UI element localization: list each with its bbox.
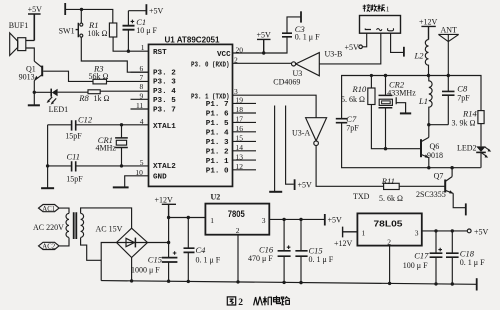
terminal bar (Q7 emitter) (465, 203, 467, 215)
svg-text:9: 9 (140, 91, 144, 100)
svg-text:AC1: AC1 (42, 206, 55, 213)
capacitor C7 (336, 119, 347, 123)
svg-text:5. 6k Ω: 5. 6k Ω (379, 194, 403, 203)
+5V terminal bar (U2 out) (324, 214, 326, 226)
svg-text:7pF: 7pF (346, 123, 359, 132)
terminal circle +5V (78L05) (467, 229, 471, 233)
node L1 bottom (427, 123, 430, 126)
crystal CR2 (379, 76, 393, 149)
svg-text:C18: C18 (460, 248, 475, 258)
+5V rail bar (SW1/R1) (64, 3, 66, 15)
capacitor C3 (282, 33, 292, 37)
wire bottom rail (101, 281, 476, 285)
node rail C18 (451, 282, 454, 285)
pin 5 wire XTAL2 (48, 165, 149, 167)
svg-text:CD4069: CD4069 (273, 77, 300, 86)
wire receiver +5V pin (363, 33, 367, 47)
IC U2 7805 body (205, 204, 269, 235)
capacitor C18 (446, 231, 459, 284)
svg-text:R14: R14 (462, 108, 477, 118)
svg-text:P1. 7: P1. 7 (206, 101, 229, 109)
IC U3 78L05 body (357, 213, 421, 245)
speaker BUF1 (10, 33, 35, 61)
node Q1 emitter / LED junction (33, 91, 36, 94)
svg-text:Q7: Q7 (434, 171, 444, 180)
svg-text:2: 2 (236, 226, 240, 235)
capacitor C12 (72, 120, 76, 130)
svg-text:R11: R11 (381, 176, 395, 186)
pin 19-12 stubs (233, 103, 257, 169)
svg-text:3: 3 (415, 228, 419, 237)
pin 2 wire RXD (233, 62, 292, 64)
node pin4 / CR1 (120, 123, 123, 126)
wire secondary top to bridge (81, 208, 132, 228)
svg-text:P1. 1: P1. 1 (206, 158, 229, 166)
svg-text:2SC3355: 2SC3355 (416, 190, 446, 199)
capacitor C11 (72, 161, 76, 171)
node C16 top (282, 218, 285, 221)
svg-text:XTAL2: XTAL2 (153, 163, 176, 171)
pin 4 wire XTAL1 (48, 124, 149, 126)
ground (middle) (269, 191, 282, 193)
bridge rectifier (117, 228, 148, 257)
svg-text:19: 19 (236, 96, 244, 105)
wire bridge left to down rail (101, 243, 116, 281)
svg-text:2: 2 (238, 298, 243, 308)
wire Q1 base (43, 71, 93, 81)
node C15b top (299, 218, 302, 221)
inductor L2 (425, 40, 428, 76)
svg-text:3. 9k Ω: 3. 9k Ω (452, 119, 476, 128)
svg-text:20: 20 (236, 45, 244, 54)
terminal bar (receiver gnd) (403, 47, 405, 57)
transistor Q1 (34, 61, 42, 105)
svg-text:0. 1 μ F: 0. 1 μ F (309, 255, 334, 264)
svg-text:P3. 4: P3. 4 (153, 88, 176, 96)
svg-text:P3. 2: P3. 2 (153, 69, 176, 77)
svg-text:433MHz: 433MHz (387, 89, 416, 98)
wire left rail (47, 125, 49, 188)
node C4 top (187, 216, 190, 219)
+5V terminal (VCC) (257, 39, 271, 53)
LED LED1 (47, 89, 58, 105)
svg-text:C4: C4 (196, 245, 207, 255)
svg-text:P3. 3: P3. 3 (153, 79, 176, 87)
transformer T1 primary (66, 213, 69, 237)
wire receiver gnd pin (391, 33, 404, 52)
svg-text:1: 1 (210, 216, 214, 225)
svg-text:100 μ F: 100 μ F (403, 261, 428, 270)
svg-text:VCC: VCC (217, 51, 231, 59)
wire secondary bottom (81, 238, 102, 261)
capacitor C1 (123, 11, 147, 52)
svg-text:BUF1: BUF1 (9, 21, 29, 30)
svg-text:P1. 0: P1. 0 (206, 168, 229, 176)
svg-text:P3. 7: P3. 7 (153, 107, 176, 115)
svg-text:1: 1 (386, 5, 390, 14)
svg-text:+12V: +12V (155, 195, 174, 204)
node C17 top (434, 229, 437, 232)
svg-text:14: 14 (236, 143, 244, 152)
svg-text:ANT: ANT (441, 26, 458, 35)
svg-text:16: 16 (236, 124, 244, 133)
svg-text:10k Ω: 10k Ω (88, 29, 108, 38)
svg-text:4: 4 (140, 117, 144, 126)
svg-text:P3. 0 (RXD): P3. 0 (RXD) (191, 62, 230, 70)
svg-text:78L05: 78L05 (374, 219, 403, 229)
node C1 / RST (127, 50, 130, 53)
svg-text:C11: C11 (67, 151, 81, 161)
+12V terminal (L2) (421, 26, 435, 39)
svg-text:GND: GND (153, 173, 167, 181)
CR2 case pin (396, 97, 405, 113)
pin 6 stub (131, 71, 149, 73)
capacitor C8 (442, 76, 455, 125)
node CR2 top (384, 74, 387, 77)
wire +5V rail to R1 (65, 9, 113, 23)
+5V terminal (TXD area) (294, 179, 296, 190)
node SW1 top (80, 8, 83, 11)
pin 11 stub (131, 108, 149, 110)
pin 3 wire TXD (233, 95, 317, 118)
wire U2 pin3 (269, 218, 324, 220)
svg-text:7805: 7805 (228, 209, 245, 219)
ground (Q1 emitter) (28, 104, 40, 106)
svg-text:+12V: +12V (334, 239, 353, 248)
svg-text:9013: 9013 (19, 73, 35, 82)
wire R3 to pin7 (107, 80, 149, 82)
svg-text:AC 220V: AC 220V (33, 223, 64, 232)
terminal bar (C3) (300, 11, 302, 22)
+5V terminal (C1) (145, 4, 147, 15)
pin 9 stub (131, 98, 149, 100)
svg-text:Q6: Q6 (430, 142, 440, 151)
wire U2 pin2 (237, 235, 239, 282)
resistor R1 (109, 23, 148, 51)
wire 78L05 pin3 (422, 230, 468, 232)
receiver board box (360, 16, 401, 34)
inverter U3-B (292, 53, 320, 76)
wire receiver data pin (320, 33, 381, 64)
svg-text:470 μ F: 470 μ F (248, 254, 273, 263)
resistor R8 (88, 90, 149, 94)
wire U3-A out to TXD line (316, 146, 384, 187)
ground (pin 10) (113, 186, 129, 188)
crystal CR1 (115, 125, 128, 166)
inverter U3-A (306, 118, 327, 146)
node rail C17 (434, 282, 437, 285)
node +12V / bridge (167, 241, 170, 244)
svg-text:U3-A: U3-A (292, 128, 310, 137)
wire bridge bottom to rail (131, 258, 133, 281)
svg-text:C17: C17 (414, 251, 429, 261)
svg-text:LED1: LED1 (49, 105, 69, 114)
+12V terminal (78L05) (343, 227, 358, 238)
+5V terminal (speaker supply) (28, 14, 41, 41)
svg-text:+12V: +12V (419, 18, 438, 27)
svg-text:6: 6 (140, 64, 144, 73)
terminal circle +5V (receiver) (359, 45, 363, 49)
svg-text:P1. 5: P1. 5 (206, 120, 229, 128)
svg-text:RST: RST (153, 49, 167, 57)
caption 图2 从机电路 (227, 296, 290, 306)
transformer core (74, 212, 77, 239)
node Q7 collector (450, 166, 453, 169)
node pin5 / CR1 (120, 164, 123, 167)
svg-text:C15: C15 (309, 246, 323, 256)
pin 10 wire GND (125, 176, 149, 188)
transistor Q7 (445, 168, 465, 208)
svg-text:1000 μ F: 1000 μ F (131, 265, 160, 274)
svg-text:+5V: +5V (474, 227, 489, 236)
switch SW1 (76, 9, 149, 72)
node rail C16 (282, 281, 285, 284)
svg-text:P3. 1 (TXD): P3. 1 (TXD) (191, 93, 230, 101)
svg-text:+5V: +5V (328, 215, 343, 224)
svg-text:13: 13 (236, 152, 244, 161)
pin mark 3 (388, 28, 394, 31)
node CR2 bottom (384, 147, 387, 150)
svg-text:+5V: +5V (257, 31, 272, 40)
svg-text:7: 7 (140, 73, 144, 82)
svg-text:15pF: 15pF (65, 131, 82, 140)
svg-text:0. 1 μ F: 0. 1 μ F (295, 32, 320, 41)
svg-text:1: 1 (362, 228, 366, 237)
svg-text:AC2: AC2 (42, 244, 55, 251)
svg-text:2: 2 (234, 55, 238, 64)
svg-text:9018: 9018 (427, 151, 443, 160)
svg-text:7pF: 7pF (457, 93, 470, 102)
pin mark 2 (377, 29, 382, 31)
node rail U2 pin2 (236, 280, 239, 283)
pin mark 1 (365, 29, 371, 30)
svg-text:LED2: LED2 (457, 144, 477, 153)
node Q6 emitter (427, 166, 430, 169)
svg-text:10 μ F: 10 μ F (136, 26, 157, 35)
wire +12V vertical (168, 218, 170, 282)
node +12V / U2 line (167, 216, 170, 219)
wire L1/C8 bottom (429, 125, 449, 138)
wire C7 bottom to emitter line (342, 123, 481, 168)
svg-text:P1. 4: P1. 4 (206, 130, 229, 138)
svg-text:L2: L2 (414, 51, 425, 61)
svg-text:TXD: TXD (353, 192, 370, 201)
wire 78L05 pin2 (389, 246, 391, 284)
transistor Q6 (421, 137, 429, 167)
resistor R14 (478, 111, 484, 147)
svg-text:4MHz: 4MHz (96, 144, 117, 153)
LED LED2 (476, 146, 491, 157)
wire RF top rail (342, 76, 481, 119)
svg-text:15pF: 15pF (66, 174, 83, 183)
svg-text:C7: C7 (346, 114, 357, 124)
wire +5V vertical (286, 106, 294, 185)
svg-text:+5V: +5V (298, 180, 313, 189)
svg-text:56k Ω: 56k Ω (89, 72, 109, 81)
IC U1 AT89C2051 body (149, 44, 233, 186)
node rail 78L05 pin2 (388, 282, 391, 285)
svg-text:17: 17 (236, 115, 244, 124)
svg-text:P1. 2: P1. 2 (206, 149, 229, 157)
svg-text:8: 8 (140, 82, 144, 91)
node R10 top (370, 74, 373, 77)
wire U2 pin1 (169, 217, 206, 219)
svg-text:P1. 6: P1. 6 (206, 111, 229, 119)
capacitor C4 (184, 218, 195, 282)
svg-text:5. 6k Ω: 5. 6k Ω (341, 95, 365, 104)
svg-text:1k Ω: 1k Ω (94, 94, 110, 103)
node rail C4 (187, 280, 190, 283)
terminal AC1 (39, 205, 70, 214)
svg-text:5: 5 (140, 158, 144, 167)
wire LED2 to emitter line (480, 152, 482, 167)
node rail C15 (167, 280, 170, 283)
svg-text:+5V: +5V (28, 5, 43, 14)
capacitor C16 (278, 219, 291, 282)
svg-text:3: 3 (262, 216, 266, 225)
svg-text:C12: C12 (78, 115, 93, 125)
svg-text:R10: R10 (352, 84, 367, 94)
svg-text:10: 10 (135, 168, 143, 177)
svg-text:+5V: +5V (149, 7, 164, 16)
transformer T1 secondary (81, 213, 84, 237)
svg-text:C8: C8 (457, 84, 468, 94)
node rail bridge (130, 279, 133, 282)
svg-text:U2: U2 (211, 192, 221, 201)
wire C3 top (287, 17, 301, 33)
antenna ANT (438, 34, 458, 75)
svg-text:+5V: +5V (345, 43, 360, 52)
svg-text:R8: R8 (78, 93, 89, 103)
capacitor C15 (1000uF) (162, 251, 178, 262)
node ANT/C8 (447, 74, 450, 77)
svg-text:U1 AT89C2051: U1 AT89C2051 (165, 36, 221, 45)
svg-text:0. 1 μ F: 0. 1 μ F (196, 255, 221, 264)
label 接收板1 (363, 4, 385, 11)
svg-text:U3-B: U3-B (325, 50, 343, 59)
svg-text:15: 15 (236, 134, 244, 143)
svg-text:P1. 3: P1. 3 (206, 139, 229, 147)
ground (left rail) (41, 187, 54, 189)
wire bridge right to +12V line (148, 242, 169, 244)
pin 20 wire VCC (233, 37, 288, 53)
svg-text:XTAL1: XTAL1 (153, 123, 176, 131)
svg-text:2: 2 (387, 237, 391, 246)
capacitor C15b (0.1uF) (295, 219, 307, 282)
svg-text:P3. 5: P3. 5 (153, 97, 176, 105)
resistor R11 (384, 183, 446, 189)
svg-text:12: 12 (236, 162, 244, 171)
wire LED net (34, 91, 88, 93)
wire ground vertical (274, 106, 276, 192)
node C11 left (46, 164, 49, 167)
node VCC +5V (262, 51, 265, 54)
capacitor C17 (430, 231, 443, 284)
svg-text:AC 15V: AC 15V (96, 224, 123, 233)
resistor R10 (368, 76, 421, 149)
node rail C15b (299, 281, 302, 284)
svg-text:11: 11 (136, 101, 143, 110)
+12V terminal (supply) (162, 204, 176, 217)
terminal bar (rail end) (476, 278, 478, 290)
resistor R3 (93, 79, 107, 84)
node C18 top (451, 229, 454, 232)
terminal AC2 (39, 238, 70, 250)
node L2/L1 (427, 74, 430, 77)
svg-text:1: 1 (141, 43, 145, 52)
svg-text:L1: L1 (418, 96, 428, 106)
ground (CR2) (400, 112, 411, 114)
inductor L1 (429, 76, 432, 125)
svg-text:SW1: SW1 (59, 26, 75, 35)
svg-text:C15: C15 (148, 254, 162, 264)
svg-text:18: 18 (236, 105, 244, 114)
svg-text:0. 1 μ F: 0. 1 μ F (460, 258, 485, 267)
